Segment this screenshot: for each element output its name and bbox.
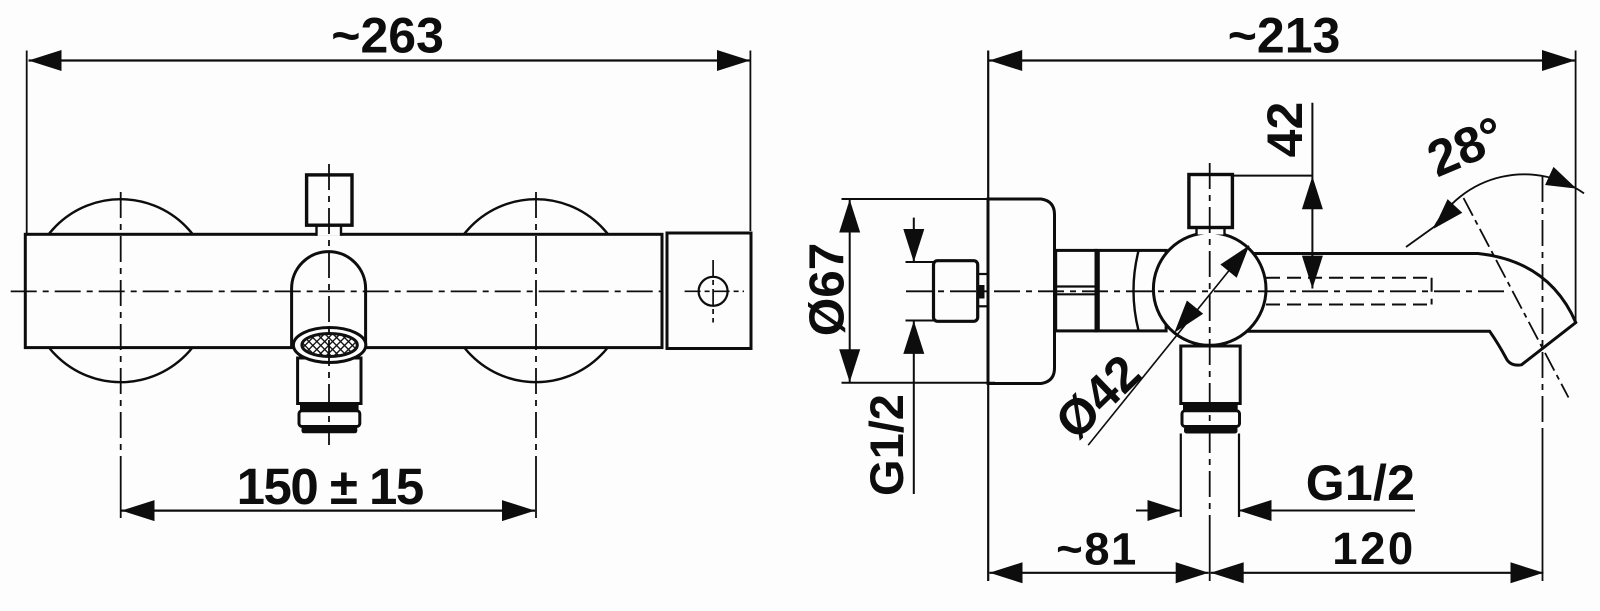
shower outlet pipe (side view) bbox=[1180, 434, 1182, 518]
dimension 120 bbox=[1211, 572, 1544, 574]
svg-text:~263: ~263 bbox=[331, 8, 444, 64]
svg-text:G1/2: G1/2 bbox=[1306, 455, 1416, 511]
end cap (front view) bbox=[667, 233, 751, 349]
diverter knob (front view) bbox=[307, 175, 352, 225]
dimension G1/2 shower outlet bbox=[1136, 510, 1181, 512]
dimension ~213 bbox=[1575, 51, 1577, 323]
dimension diameter 42 valve bbox=[1088, 246, 1249, 445]
aerator mesh (front view) bbox=[302, 334, 357, 357]
outlet collar (front view) bbox=[299, 411, 360, 427]
svg-text:120: 120 bbox=[1332, 523, 1415, 574]
left wall-flange circle (front view) bbox=[29, 199, 212, 382]
dimension 28 degrees bbox=[1434, 174, 1584, 227]
diverter neck (side view) bbox=[1198, 226, 1224, 235]
outlet black band 2 (front view) bbox=[302, 427, 358, 434]
outlet black band 1 (front view) bbox=[300, 402, 359, 411]
dimension 150 +/- 15 bbox=[122, 510, 536, 512]
mixer body bar (front view) bbox=[25, 234, 662, 347]
svg-text:150 ± 15: 150 ± 15 bbox=[237, 458, 423, 515]
dimension G1/2 inlet bbox=[913, 218, 915, 263]
spout tube and bend (side view) bbox=[1245, 254, 1576, 366]
diverter knob (side view) bbox=[1189, 175, 1233, 228]
dimension diameter 67 bbox=[849, 199, 851, 383]
dimension ~263 bbox=[26, 51, 28, 234]
spout dome (front view) bbox=[292, 252, 366, 349]
left circle centerline bbox=[120, 192, 122, 478]
svg-text:~213: ~213 bbox=[1228, 8, 1341, 64]
shower outlet block (side view) bbox=[1181, 346, 1240, 404]
main horizontal centerline (front view) bbox=[11, 290, 662, 292]
svg-text:Ø67: Ø67 bbox=[800, 243, 855, 337]
valve circle (side view) bbox=[1153, 233, 1266, 346]
svg-text:42: 42 bbox=[1257, 102, 1313, 158]
right circle centerline bbox=[535, 192, 537, 478]
connector collar lines bbox=[978, 273, 987, 275]
diverter stem (front view) bbox=[317, 223, 342, 236]
dimension 42 bbox=[1311, 103, 1313, 289]
spout vertical centerline (front view) bbox=[328, 164, 330, 445]
end cap screw hole bbox=[699, 277, 728, 306]
wall plate profile (side view) bbox=[988, 199, 1055, 384]
tube nut to valve (side view) bbox=[1096, 250, 1166, 331]
valve body rear arc (side view) bbox=[1134, 251, 1139, 331]
vertical centerline through valve (side view) bbox=[1209, 163, 1211, 517]
svg-text:~81: ~81 bbox=[1056, 523, 1138, 574]
hex nut (side view) bbox=[1056, 250, 1096, 331]
right wall-flange circle (front view) bbox=[445, 199, 628, 382]
dimension ~81 bbox=[990, 572, 1209, 574]
aerator outer ring (front view) bbox=[293, 328, 365, 363]
inclined spout axis 28deg bbox=[1464, 198, 1569, 398]
svg-text:G1/2: G1/2 bbox=[860, 394, 913, 496]
spout tip vertical axis bbox=[1542, 176, 1544, 430]
horizontal centerline (side view) bbox=[906, 290, 1504, 292]
wall line (side view) bbox=[987, 51, 989, 582]
shower outlet block (front view) bbox=[298, 358, 361, 404]
hidden thread lines in spout bbox=[1266, 277, 1432, 279]
inlet connector (side view) bbox=[934, 261, 978, 322]
